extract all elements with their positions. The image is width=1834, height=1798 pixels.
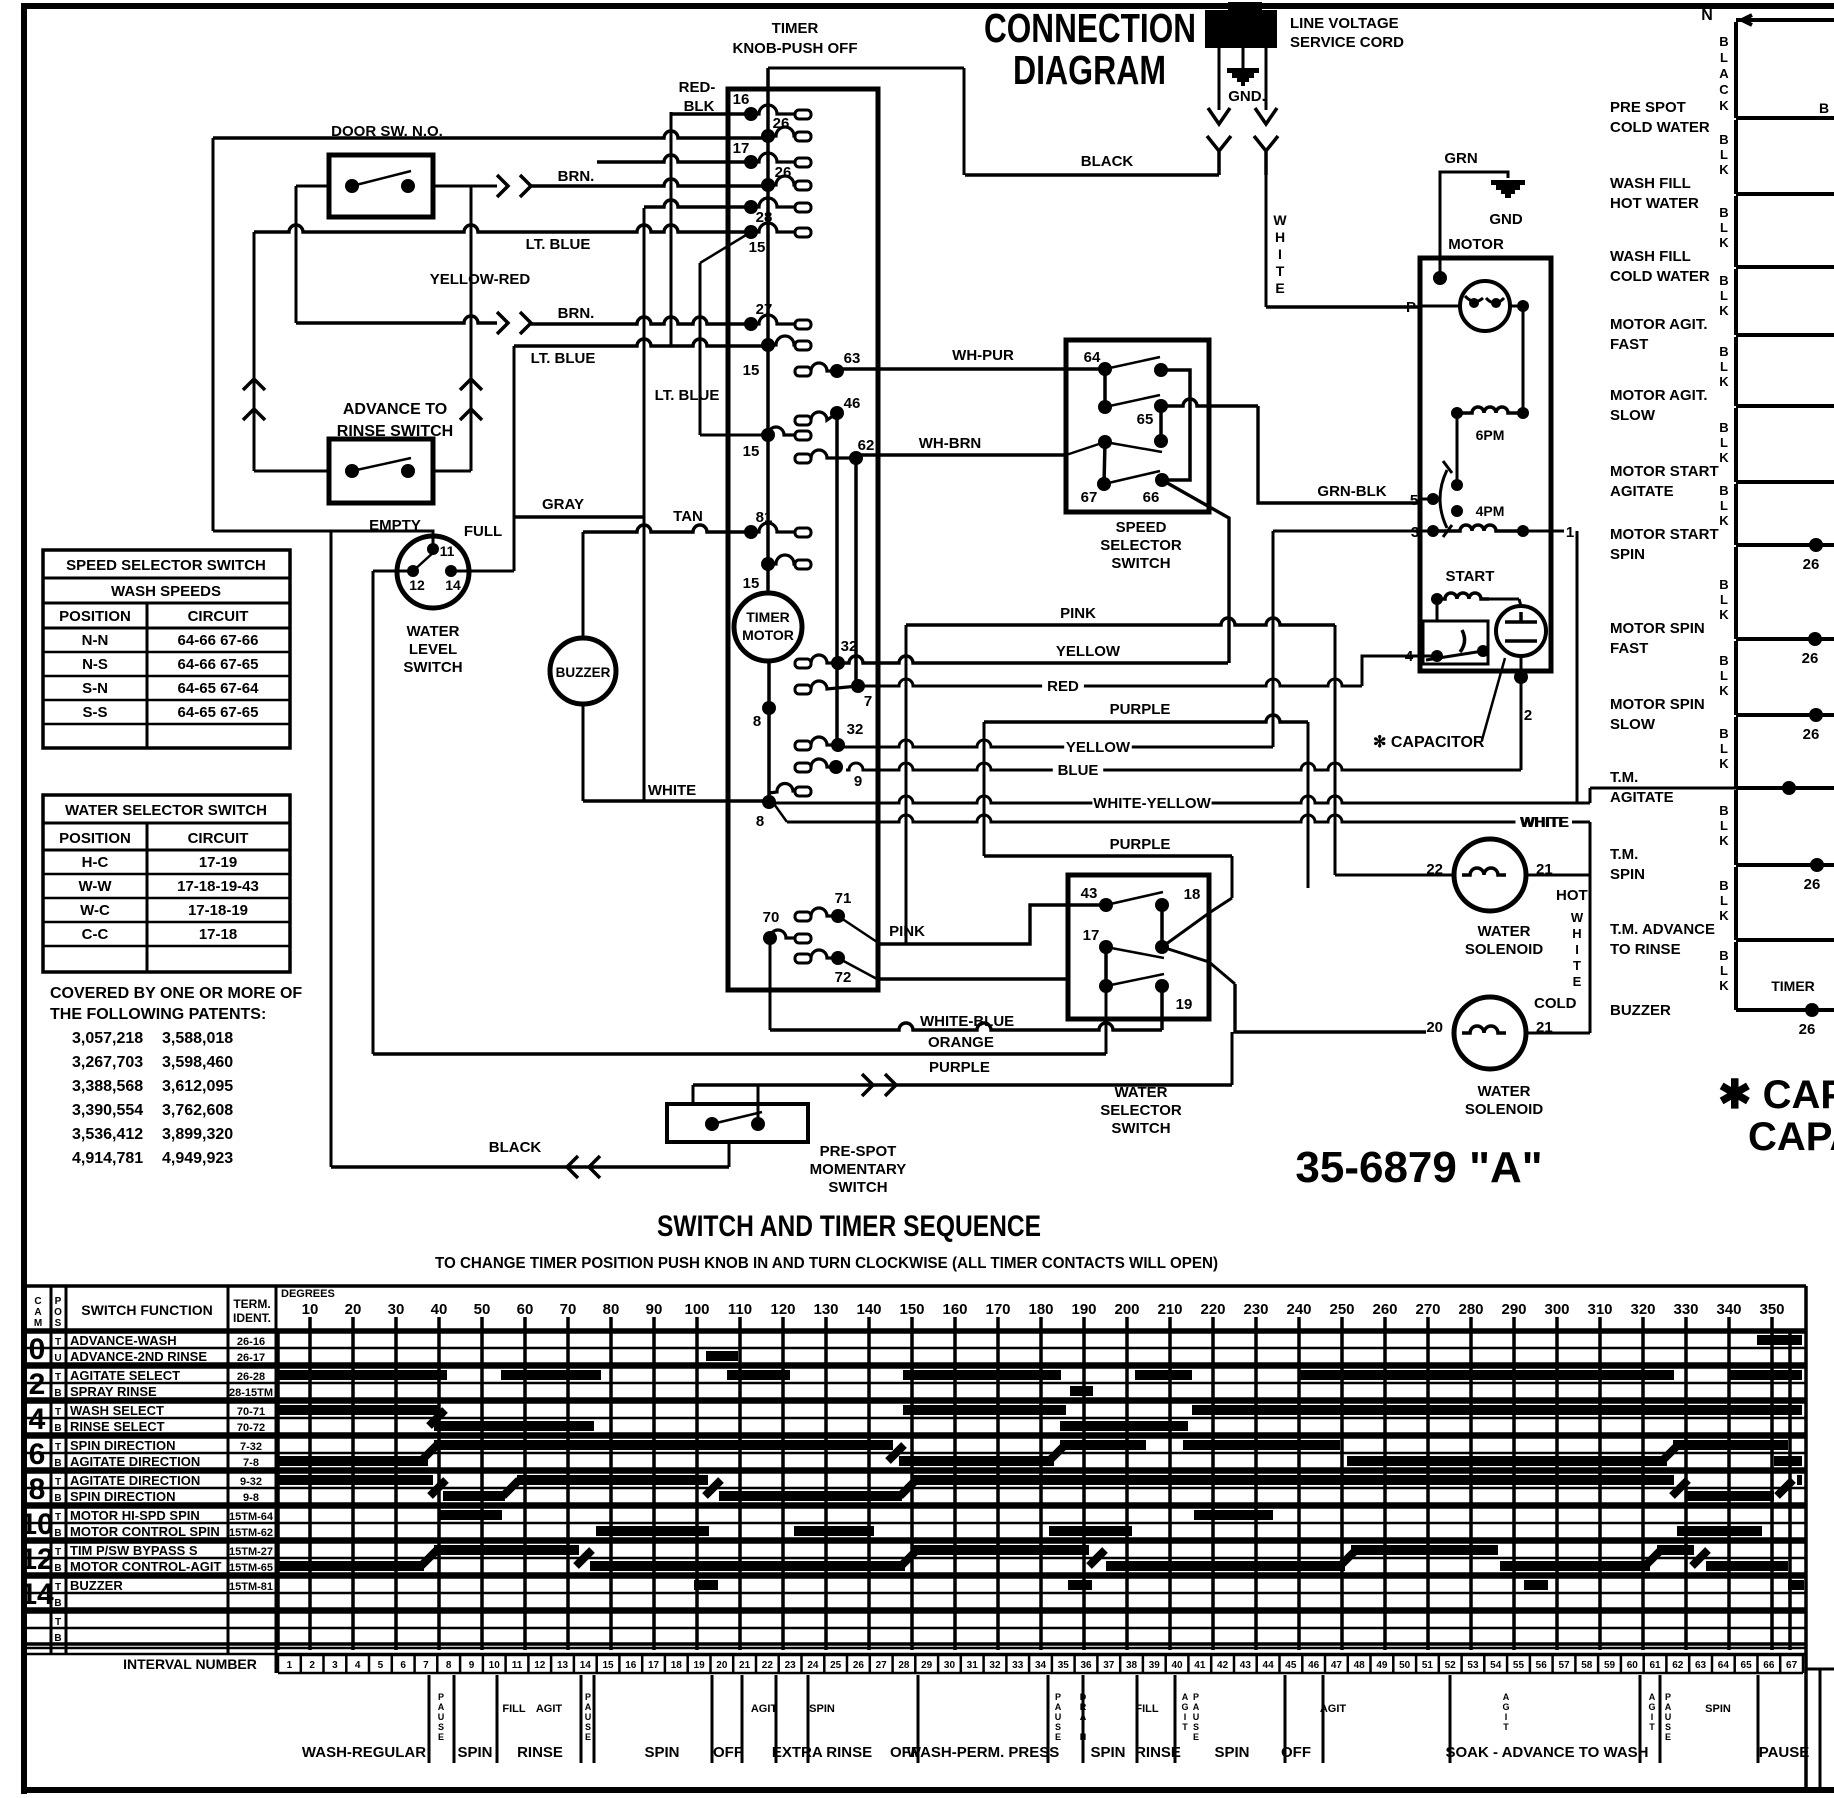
wire RED (858, 679, 1042, 686)
svg-text:48: 48 (1354, 1660, 1366, 1671)
timer contact 9 (795, 763, 811, 772)
svg-text:K: K (1719, 162, 1729, 177)
svg-text:U: U (585, 1712, 592, 1722)
water solenoid COLD (1454, 997, 1526, 1069)
svg-text:TIM P/SW BYPASS S: TIM P/SW BYPASS S (70, 1543, 198, 1558)
svg-text:P: P (1406, 299, 1416, 316)
node 66 (1155, 473, 1169, 487)
svg-text:I: I (1278, 246, 1282, 262)
svg-text:64-65 67-64: 64-65 67-64 (178, 680, 260, 697)
svg-text:IDENT.: IDENT. (233, 1311, 271, 1325)
svg-text:6: 6 (400, 1660, 406, 1671)
svg-text:26: 26 (1799, 1021, 1816, 1038)
svg-text:S: S (1193, 1722, 1199, 1732)
svg-text:SWITCH: SWITCH (403, 659, 462, 676)
wire plug gnd lead (1242, 48, 1245, 68)
svg-text:SPRAY RINSE: SPRAY RINSE (70, 1384, 157, 1399)
wire WHITE vertical (1265, 151, 1268, 307)
svg-text:YELLOW: YELLOW (1056, 643, 1121, 660)
timer contact 81 (744, 525, 758, 539)
svg-text:AGITATE: AGITATE (1610, 789, 1674, 806)
wire WASH FILL HOT WATER (1734, 120, 1738, 194)
svg-text:280: 280 (1458, 1301, 1483, 1318)
wire YELLOW 2 (838, 740, 1064, 747)
svg-text:6: 6 (29, 1438, 46, 1471)
svg-text:L: L (1720, 592, 1728, 607)
svg-text:A: A (438, 1702, 445, 1712)
svg-text:SPIN: SPIN (644, 1744, 679, 1761)
svg-text:U: U (1055, 1712, 1062, 1722)
svg-text:100: 100 (684, 1301, 709, 1318)
svg-text:BRN.: BRN. (558, 168, 595, 185)
svg-text:COLD WATER: COLD WATER (1610, 268, 1710, 285)
wire PRE SPOT COLD WATER (1734, 22, 1738, 118)
svg-text:32: 32 (989, 1660, 1001, 1671)
node terminal 3 (1427, 525, 1439, 537)
svg-text:B: B (54, 1563, 61, 1574)
svg-text:T: T (55, 1442, 61, 1453)
svg-text:46: 46 (1308, 1660, 1320, 1671)
wire 70 down (769, 938, 772, 1030)
svg-text:18: 18 (1184, 886, 1201, 903)
svg-text:MOTOR: MOTOR (1448, 236, 1504, 253)
node 67 (1098, 435, 1112, 449)
svg-text:A: A (1649, 1692, 1656, 1702)
svg-text:A: A (1182, 1692, 1189, 1702)
svg-text:12: 12 (534, 1660, 546, 1671)
svg-text:14: 14 (20, 1578, 54, 1611)
svg-text:PURPLE: PURPLE (1110, 701, 1171, 718)
svg-text:26: 26 (1802, 650, 1819, 667)
wire BUZZER (1734, 942, 1738, 1010)
svg-text:170: 170 (985, 1301, 1010, 1318)
svg-text:15TM-62: 15TM-62 (229, 1527, 273, 1539)
svg-text:A: A (1193, 1702, 1200, 1712)
wire WHITE-YELLOW right (769, 796, 1092, 803)
svg-text:L: L (1720, 741, 1728, 756)
motor 6PM winding (1457, 407, 1523, 413)
node 64 right elbow (1154, 363, 1168, 377)
svg-text:64-66 67-66: 64-66 67-66 (178, 632, 259, 649)
svg-text:53: 53 (1467, 1660, 1479, 1671)
svg-text:31: 31 (967, 1660, 979, 1671)
svg-text:67: 67 (1081, 489, 1098, 506)
svg-text:SPIN: SPIN (1610, 866, 1645, 883)
svg-text:15: 15 (743, 362, 760, 379)
svg-text:AGITATE: AGITATE (1610, 483, 1674, 500)
svg-text:SPIN: SPIN (1705, 1703, 1731, 1715)
svg-text:A: A (1719, 66, 1729, 81)
svg-text:110: 110 (728, 1301, 752, 1318)
svg-text:1: 1 (287, 1660, 293, 1671)
timer contact (744, 200, 758, 214)
svg-text:TERM.: TERM. (233, 1297, 270, 1311)
svg-text:45: 45 (1285, 1660, 1297, 1671)
svg-text:300: 300 (1544, 1301, 1569, 1318)
wire WHITE lower (769, 797, 787, 822)
svg-text:17-19: 17-19 (199, 854, 237, 871)
svg-text:80: 80 (603, 1301, 620, 1318)
svg-text:MOTOR SPIN: MOTOR SPIN (1610, 696, 1705, 713)
svg-text:E: E (1193, 1732, 1199, 1742)
svg-text:U: U (54, 1353, 61, 1364)
svg-text:6PM: 6PM (1476, 427, 1505, 443)
capacitor C (motor start capacitor) (1496, 606, 1546, 656)
svg-text:72: 72 (835, 969, 852, 986)
svg-text:26: 26 (773, 115, 790, 132)
svg-text:SPIN: SPIN (1090, 1744, 1125, 1761)
svg-text:I: I (1505, 1712, 1508, 1722)
svg-text:PRE-SPOT: PRE-SPOT (820, 1143, 897, 1160)
wire 6PM to switch (1456, 413, 1459, 485)
wire P to protector (1422, 305, 1460, 308)
timer contact 46 (795, 416, 811, 425)
buzzer (550, 638, 616, 704)
svg-text:BLUE: BLUE (1058, 762, 1099, 779)
svg-text:K: K (1719, 756, 1729, 771)
svg-text:S: S (1665, 1722, 1671, 1732)
svg-text:60: 60 (517, 1301, 534, 1318)
svg-text:15TM-27: 15TM-27 (229, 1546, 273, 1558)
svg-text:36: 36 (1080, 1660, 1092, 1671)
svg-text:15TM-64: 15TM-64 (229, 1511, 274, 1523)
timer contact 26 (761, 178, 775, 192)
node 19 (1155, 979, 1169, 993)
svg-text:4: 4 (29, 1403, 46, 1436)
svg-text:15: 15 (743, 443, 760, 460)
wire BLUE (846, 763, 1053, 770)
svg-text:63: 63 (1695, 1660, 1707, 1671)
wire blade 67b (1104, 471, 1160, 484)
svg-text:AGITATE DIRECTION: AGITATE DIRECTION (70, 1454, 200, 1469)
svg-text:71: 71 (835, 890, 852, 907)
svg-text:W-W: W-W (78, 878, 112, 895)
wire MOTOR AGIT. FAST (1734, 269, 1738, 335)
timer contact 8 node (762, 701, 776, 715)
svg-text:G: G (1648, 1702, 1655, 1712)
svg-text:W: W (1273, 212, 1287, 228)
svg-text:8: 8 (756, 813, 764, 830)
svg-text:19: 19 (694, 1660, 706, 1671)
table water selector switch (43, 795, 290, 972)
door switch (329, 155, 433, 217)
svg-text:54: 54 (1490, 1660, 1502, 1671)
wire T.M. ADVANCE TO RINSE (1734, 867, 1738, 940)
svg-text:B: B (1719, 132, 1728, 147)
svg-text:T: T (1503, 1722, 1509, 1732)
svg-text:ADVANCE TO: ADVANCE TO (343, 401, 447, 418)
timer contact 8 terminal (769, 784, 795, 793)
svg-text:B: B (1719, 726, 1728, 741)
svg-text:14: 14 (445, 577, 461, 593)
svg-text:16: 16 (625, 1660, 637, 1671)
svg-text:SPIN: SPIN (457, 1744, 492, 1761)
svg-text:B: B (54, 1493, 61, 1504)
svg-text:15TM-65: 15TM-65 (229, 1562, 273, 1574)
timer inner verticals (835, 413, 839, 745)
svg-text:310: 310 (1587, 1301, 1612, 1318)
svg-text:37: 37 (1103, 1660, 1115, 1671)
svg-text:26-28: 26-28 (237, 1371, 265, 1383)
svg-text:MOTOR AGIT.: MOTOR AGIT. (1610, 316, 1708, 333)
start switch box (1423, 621, 1488, 664)
svg-text:15TM-81: 15TM-81 (229, 1581, 273, 1593)
svg-text:L: L (1720, 668, 1728, 683)
svg-text:YELLOW-RED: YELLOW-RED (430, 271, 531, 288)
svg-text:70: 70 (763, 909, 780, 926)
wire outer left vertical (212, 138, 215, 531)
svg-text:FULL: FULL (464, 523, 502, 540)
svg-text:SLOW: SLOW (1610, 407, 1656, 424)
svg-text:WASH SELECT: WASH SELECT (70, 1403, 164, 1418)
svg-text:8: 8 (446, 1660, 452, 1671)
svg-text:THE FOLLOWING PATENTS:: THE FOLLOWING PATENTS: (50, 1006, 266, 1023)
svg-text:SLOW: SLOW (1610, 716, 1656, 733)
node 4-6 switch bottom (1451, 505, 1463, 517)
wire blade 64b (1105, 395, 1160, 407)
wire timer knob feed (768, 67, 964, 70)
svg-text:28-15TM: 28-15TM (229, 1387, 273, 1399)
svg-text:COLD WATER: COLD WATER (1610, 119, 1710, 136)
svg-text:DEGREES: DEGREES (281, 1288, 335, 1300)
svg-text:E: E (1055, 1732, 1061, 1742)
wire gray vertical (643, 208, 646, 801)
svg-text:T: T (55, 1372, 61, 1383)
svg-text:K: K (1719, 235, 1729, 250)
svg-text:H-C: H-C (82, 854, 109, 871)
border frame (21, 3, 1834, 9)
svg-text:160: 160 (942, 1301, 967, 1318)
svg-text:58: 58 (1581, 1660, 1593, 1671)
svg-text:GRN-BLK: GRN-BLK (1317, 483, 1386, 500)
svg-text:50: 50 (474, 1301, 491, 1318)
svg-text:B: B (1719, 483, 1728, 498)
speed change switch arc (1440, 470, 1447, 528)
timer contact 72 (795, 954, 811, 963)
svg-text:250: 250 (1329, 1301, 1354, 1318)
svg-text:3,267,703: 3,267,703 (72, 1054, 143, 1071)
svg-text:N-N: N-N (82, 632, 109, 649)
svg-text:✻ CAPACITOR: ✻ CAPACITOR (1373, 734, 1485, 751)
svg-text:15: 15 (749, 239, 766, 256)
svg-text:GND: GND (1489, 211, 1523, 228)
svg-text:C-C: C-C (82, 926, 109, 943)
svg-text:12: 12 (20, 1543, 53, 1576)
svg-text:WASH FILL: WASH FILL (1610, 248, 1691, 265)
svg-text:T: T (1573, 958, 1581, 973)
svg-text:28: 28 (756, 209, 773, 226)
svg-text:START: START (1446, 568, 1495, 585)
svg-text:17: 17 (733, 140, 750, 157)
svg-text:S: S (1055, 1722, 1061, 1732)
svg-text:SWITCH: SWITCH (1111, 1120, 1170, 1137)
wire door sw left (296, 185, 329, 188)
svg-text:35: 35 (1058, 1660, 1070, 1671)
svg-text:26: 26 (1803, 726, 1820, 743)
svg-text:SOLENOID: SOLENOID (1465, 1101, 1544, 1118)
svg-text:BRN.: BRN. (558, 305, 595, 322)
svg-text:43: 43 (1081, 885, 1098, 902)
wire red-blk vertical (670, 112, 673, 346)
svg-text:PURPLE: PURPLE (929, 1059, 990, 1076)
svg-text:K: K (1719, 833, 1729, 848)
svg-text:G: G (1181, 1702, 1188, 1712)
svg-text:SWITCH FUNCTION: SWITCH FUNCTION (81, 1302, 212, 1318)
svg-text:66: 66 (1763, 1660, 1775, 1671)
svg-text:SPIN: SPIN (1610, 546, 1645, 563)
svg-text:19: 19 (1176, 996, 1193, 1013)
svg-text:63: 63 (844, 350, 861, 367)
svg-text:61: 61 (1649, 1660, 1661, 1671)
svg-text:66: 66 (1143, 489, 1160, 506)
svg-text:A: A (1665, 1702, 1672, 1712)
node 18 (1155, 898, 1169, 912)
svg-text:T.M.: T.M. (1610, 846, 1638, 863)
svg-text:27: 27 (756, 301, 773, 318)
svg-text:E: E (1275, 280, 1284, 296)
svg-text:B: B (1719, 577, 1728, 592)
wire T.M. SPIN (1734, 790, 1738, 865)
svg-text:O: O (54, 1307, 62, 1318)
svg-text:20: 20 (345, 1301, 362, 1318)
wire T.M. AGITATE (1734, 717, 1738, 788)
svg-text:MOTOR: MOTOR (742, 627, 794, 643)
svg-text:SWITCH AND TIMER SEQUENCE: SWITCH AND TIMER SEQUENCE (657, 1210, 1041, 1243)
timer contact (761, 338, 775, 352)
svg-text:ADVANCE-2ND RINSE: ADVANCE-2ND RINSE (70, 1349, 207, 1364)
svg-text:MOTOR CONTROL-AGIT: MOTOR CONTROL-AGIT (70, 1559, 221, 1574)
svg-text:350: 350 (1759, 1301, 1784, 1318)
svg-text:S: S (585, 1722, 591, 1732)
svg-text:B: B (1819, 100, 1829, 116)
wire 66 to yellow (1162, 480, 1229, 663)
svg-text:SPEED: SPEED (1116, 519, 1167, 536)
arrow right lead (1255, 108, 1277, 124)
svg-text:26: 26 (853, 1660, 865, 1671)
svg-text:L: L (1720, 288, 1728, 303)
wire buzzer top (582, 532, 585, 638)
connector Y left (1207, 136, 1231, 175)
svg-text:3,536,412: 3,536,412 (72, 1126, 143, 1143)
svg-text:18: 18 (671, 1660, 683, 1671)
svg-text:B: B (54, 1423, 61, 1434)
svg-text:E: E (1573, 974, 1582, 989)
svg-text:A: A (1055, 1702, 1062, 1712)
svg-text:U: U (1665, 1712, 1672, 1722)
wire BRN lower (296, 316, 497, 323)
svg-text:WATER SELECTOR SWITCH: WATER SELECTOR SWITCH (65, 802, 267, 819)
svg-text:17-18: 17-18 (199, 926, 237, 943)
svg-text:39: 39 (1149, 1660, 1161, 1671)
svg-text:140: 140 (856, 1301, 881, 1318)
svg-text:30: 30 (944, 1660, 956, 1671)
svg-text:T: T (55, 1477, 61, 1488)
timer contact 26 (761, 129, 775, 143)
node 4-6 switch top (1451, 479, 1463, 491)
svg-text:43: 43 (1240, 1660, 1252, 1671)
svg-text:E: E (438, 1732, 444, 1742)
svg-text:P: P (438, 1692, 444, 1702)
svg-text:E: E (585, 1732, 591, 1742)
svg-text:HOT WATER: HOT WATER (1610, 195, 1699, 212)
table speed selector switch (43, 550, 290, 748)
arrow left lead (1208, 108, 1230, 124)
svg-text:MOTOR START: MOTOR START (1610, 526, 1719, 543)
svg-text:H: H (1275, 229, 1285, 245)
wire PINK lower (838, 916, 880, 944)
speed selector switch box (1066, 340, 1209, 512)
svg-text:A: A (34, 1307, 41, 1318)
svg-text:2: 2 (309, 1660, 315, 1671)
svg-text:64-65 67-65: 64-65 67-65 (178, 704, 259, 721)
wire outer left vertical 2 (330, 531, 333, 1167)
svg-text:WHITE-BLUE: WHITE-BLUE (920, 1013, 1014, 1030)
svg-text:3,598,460: 3,598,460 (162, 1054, 233, 1071)
wire MOTOR START AGITATE (1734, 408, 1738, 482)
wire blade 64 (1105, 357, 1160, 369)
svg-text:RED: RED (1047, 678, 1079, 695)
svg-text:B: B (1719, 273, 1728, 288)
svg-text:4,914,781: 4,914,781 (72, 1150, 143, 1167)
timer contact 32 (795, 659, 811, 668)
svg-text:K: K (1719, 908, 1729, 923)
wire MOTOR AGIT. SLOW (1734, 337, 1738, 406)
wire LT BLUE (254, 225, 751, 232)
svg-text:L: L (1720, 50, 1728, 65)
svg-text:SERVICE CORD: SERVICE CORD (1290, 34, 1404, 51)
svg-text:LT. BLUE: LT. BLUE (531, 350, 596, 367)
timer contact 71 (795, 912, 811, 921)
wire LT BLUE 2 (514, 339, 768, 346)
svg-text:PAUSE: PAUSE (1759, 1744, 1810, 1761)
svg-text:E: E (1665, 1732, 1671, 1742)
svg-text:COVERED BY ONE OR MORE OF: COVERED BY ONE OR MORE OF (50, 985, 302, 1002)
wire empty lead (331, 531, 433, 549)
svg-text:10: 10 (302, 1301, 319, 1318)
svg-text:26: 26 (775, 164, 792, 181)
svg-text:49: 49 (1376, 1660, 1388, 1671)
svg-text:180: 180 (1028, 1301, 1053, 1318)
svg-text:GRAY: GRAY (542, 496, 584, 513)
svg-text:200: 200 (1114, 1301, 1139, 1318)
svg-text:P: P (1193, 1692, 1199, 1702)
svg-text:AGIT: AGIT (536, 1703, 563, 1715)
svg-text:4PM: 4PM (1476, 503, 1505, 519)
svg-text:BLACK: BLACK (489, 1139, 542, 1156)
svg-text:59: 59 (1604, 1660, 1616, 1671)
wire MOTOR START SPIN (1734, 484, 1738, 545)
node motor gnd (1433, 271, 1447, 285)
wire 18 to cold solenoid (1235, 984, 1426, 1032)
wire plug left lead (1218, 48, 1221, 110)
node 17 (1099, 940, 1113, 954)
svg-text:C: C (1719, 82, 1729, 97)
svg-text:B: B (54, 1388, 61, 1399)
svg-text:K: K (1719, 98, 1729, 113)
svg-text:S-N: S-N (82, 680, 108, 697)
svg-text:9: 9 (469, 1660, 475, 1671)
ground symbol motor GND (1491, 180, 1525, 198)
wire pink to 22 (1335, 874, 1454, 877)
svg-text:10: 10 (20, 1508, 53, 1541)
svg-text:8: 8 (29, 1473, 46, 1506)
svg-text:S: S (55, 1318, 62, 1329)
wire blade 67 (1105, 442, 1162, 452)
wire 21 to white (1526, 874, 1590, 877)
svg-text:17: 17 (1083, 927, 1100, 944)
svg-text:U: U (1193, 1712, 1200, 1722)
svg-text:56: 56 (1536, 1660, 1548, 1671)
